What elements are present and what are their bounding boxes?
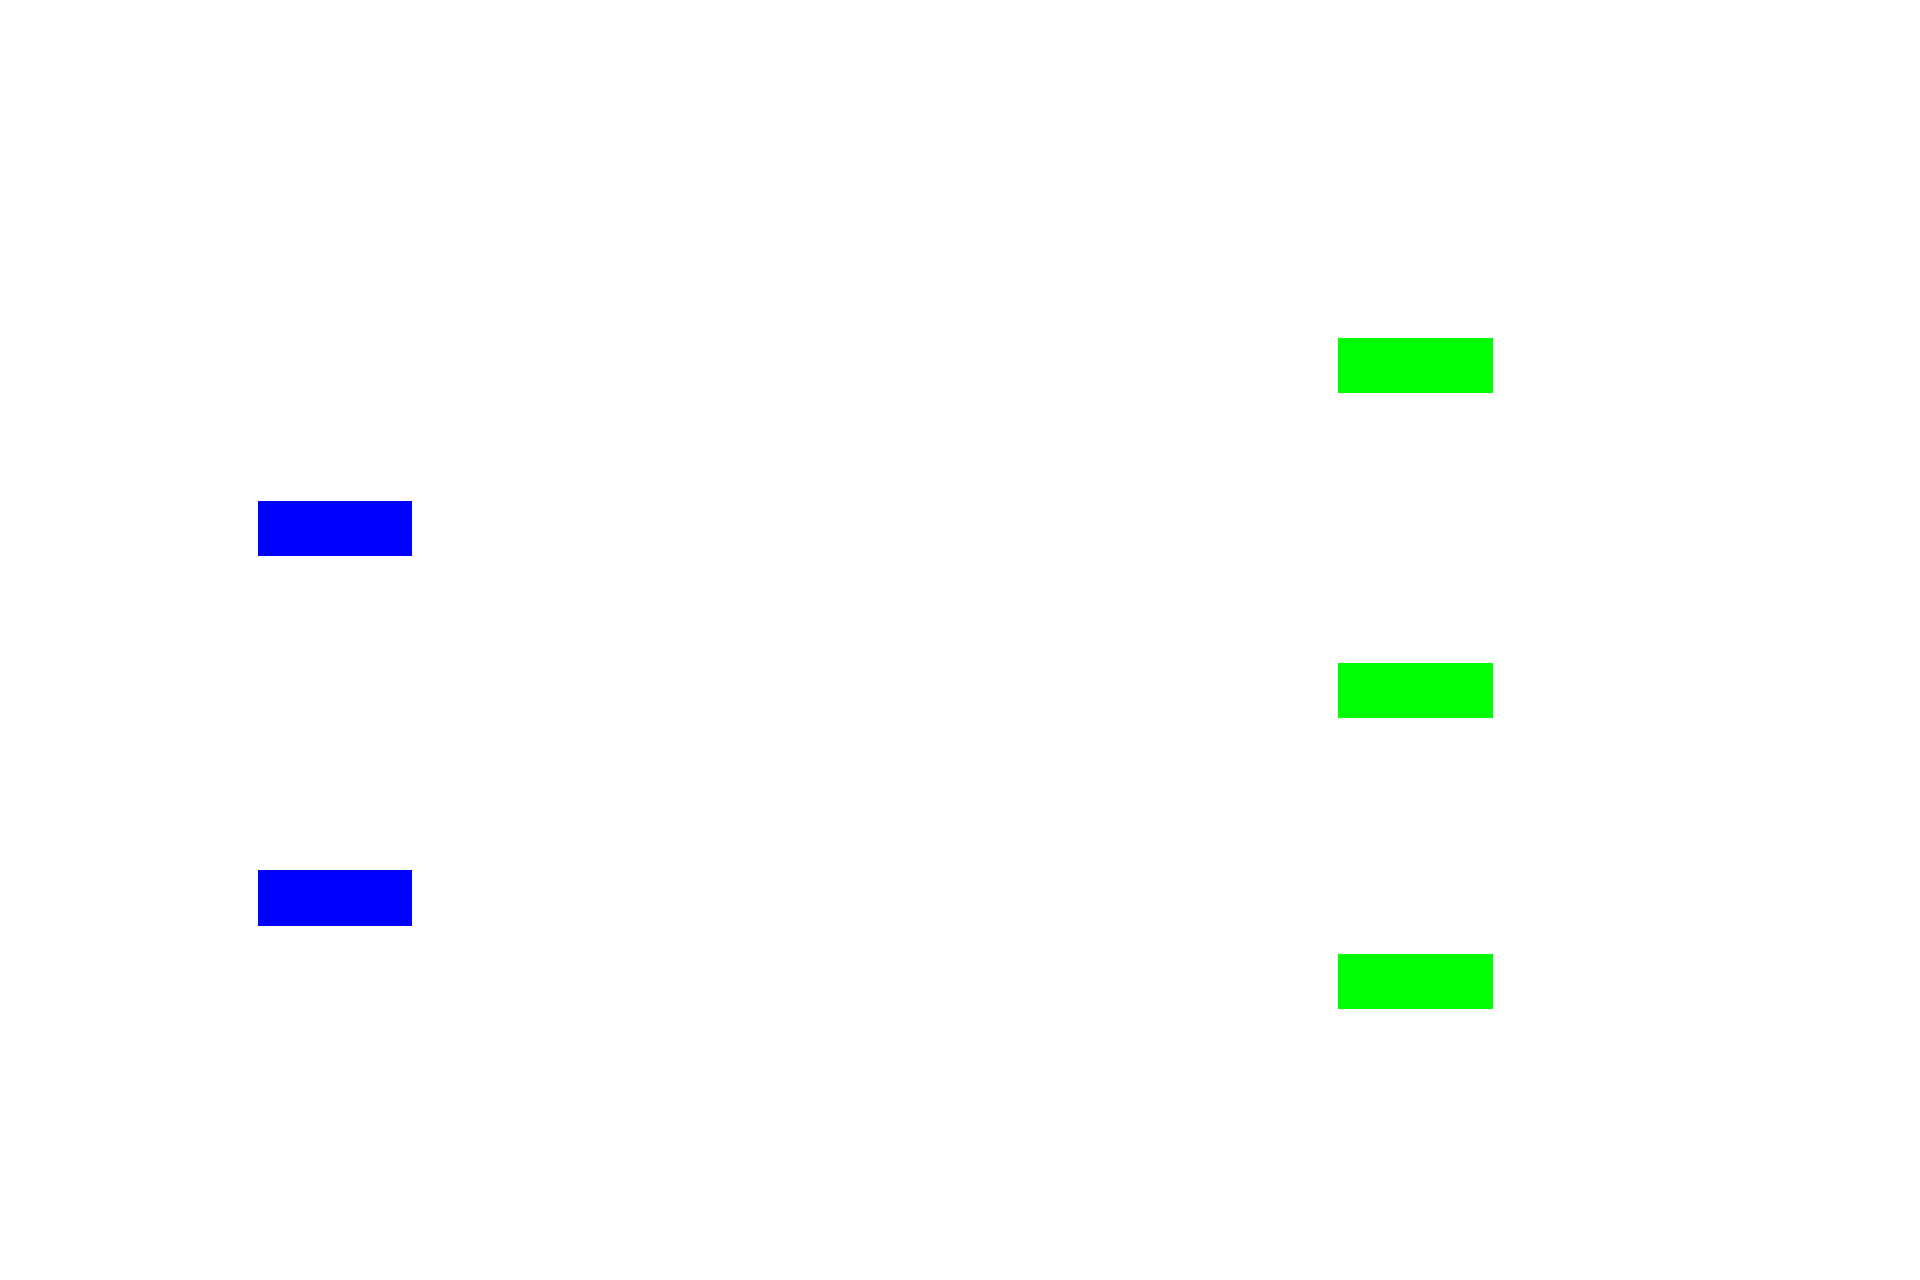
blue rectangle 1 (upper left) xyxy=(258,501,412,556)
blue rectangle 2 (lower left) xyxy=(258,870,412,926)
green rectangle 2 (middle right) xyxy=(1338,663,1493,718)
green rectangle 3 (lower right) xyxy=(1338,954,1493,1009)
green rectangle 1 (upper right) xyxy=(1338,338,1493,393)
